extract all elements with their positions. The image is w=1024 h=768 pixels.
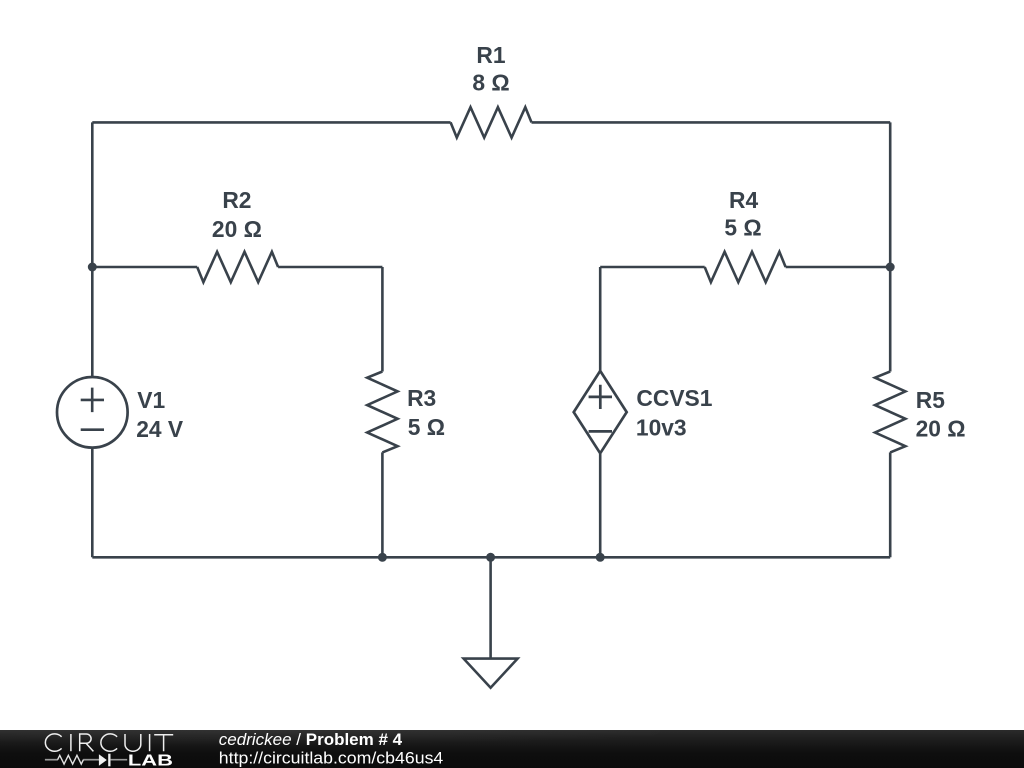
svg-text:R2: R2 <box>222 187 251 213</box>
svg-text:10v3: 10v3 <box>636 415 687 441</box>
svg-text:5 Ω: 5 Ω <box>724 215 761 241</box>
svg-text:R4: R4 <box>729 187 758 213</box>
svg-text:http://circuitlab.com/cb46us4: http://circuitlab.com/cb46us4 <box>219 749 444 768</box>
svg-text:LAB: LAB <box>128 752 173 768</box>
svg-text:V1: V1 <box>137 387 165 413</box>
svg-text:24 V: 24 V <box>136 416 184 442</box>
svg-text:R3: R3 <box>407 385 436 411</box>
svg-text:20 Ω: 20 Ω <box>916 416 966 442</box>
svg-text:5 Ω: 5 Ω <box>408 414 445 440</box>
svg-text:R1: R1 <box>476 42 505 68</box>
svg-text:R5: R5 <box>916 387 945 413</box>
svg-text:8 Ω: 8 Ω <box>472 70 509 96</box>
svg-text:CCVS1: CCVS1 <box>636 385 712 411</box>
svg-text:20 Ω: 20 Ω <box>212 216 262 242</box>
svg-text:cedrickee / Problem # 4: cedrickee / Problem # 4 <box>219 730 403 749</box>
